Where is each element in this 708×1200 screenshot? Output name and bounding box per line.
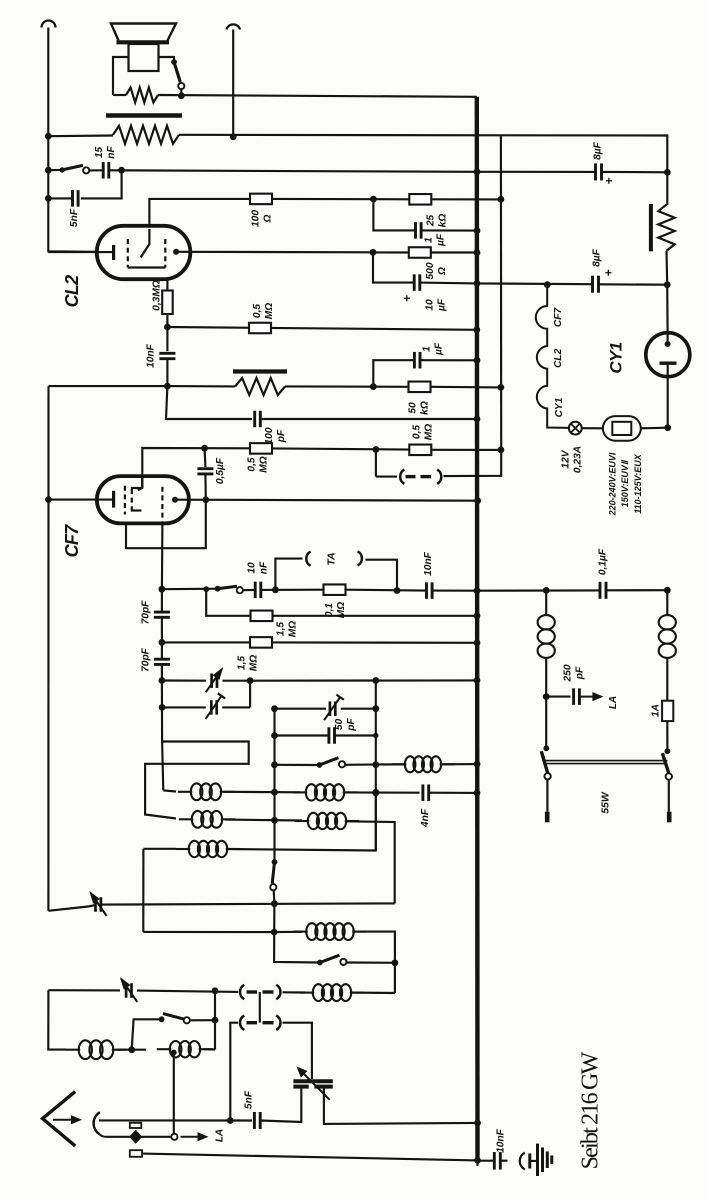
wire 100ohm to 25k [272, 198, 409, 201]
switch S-band2 lever [320, 955, 340, 962]
label 0,1uF [598, 548, 609, 575]
gang link line a [545, 760, 667, 762]
arrester box top [130, 1123, 142, 1128]
arrester diamond [129, 1130, 142, 1144]
node heater chain top [544, 281, 551, 288]
svg-text:100: 100 [251, 210, 262, 227]
wire bus to 10nF earth [478, 1160, 495, 1162]
capacitor C 1uF (screen) [413, 352, 416, 369]
wire secondary row [158, 95, 477, 97]
wire 15nF to bus [109, 170, 477, 172]
wire rowC right [101, 903, 395, 904]
node 0.5uF bottom [202, 496, 209, 503]
earth socket arc [520, 1153, 525, 1170]
wire rail to CY1 [666, 285, 669, 333]
mains prong left [545, 812, 550, 823]
antenna socket arc [94, 1112, 100, 1134]
svg-text:CL2: CL2 [553, 348, 564, 368]
svg-text:LA: LA [215, 1129, 226, 1142]
switch S-mains1 contact [544, 773, 550, 779]
wire x274 column top [273, 709, 275, 862]
node bus bottom row [474, 1157, 481, 1164]
node rail-B cathode [45, 496, 52, 503]
label 0,1MOhm [324, 602, 347, 618]
tube CF7 grid dash 1 [124, 486, 126, 515]
wire 70pF-a link [161, 589, 163, 612]
svg-text:MΩ: MΩ [424, 424, 435, 440]
label Seibt 216 GW [578, 1051, 604, 1169]
wire jack2 left down [230, 1023, 238, 1121]
label heater CF7 [553, 307, 564, 328]
wire 8uF row [477, 171, 595, 173]
wire CF7 anode row [175, 500, 478, 501]
tube CL2 envelope [97, 226, 191, 279]
switch S-TA lever [218, 586, 237, 589]
node col-x501 50k [498, 384, 505, 391]
wire 1.5Ma to bus [273, 615, 478, 617]
wire x376 column [375, 681, 377, 851]
wire 10nF-b to bus [432, 590, 477, 592]
svg-text:kΩ: kΩ [420, 401, 431, 415]
svg-text:CF7: CF7 [553, 307, 564, 328]
node bus row681 [474, 677, 481, 684]
wire 250pF branch [546, 696, 570, 698]
wire 0.5uF branch [204, 448, 207, 467]
svg-text:+: + [602, 177, 616, 184]
tube CL2 grid dash 2 [164, 239, 166, 268]
node coils G-H [128, 1046, 135, 1053]
label 1uF b [422, 342, 445, 356]
wire rowB right [345, 821, 395, 903]
wire branch down to 1uF [373, 199, 415, 230]
switch S-mains2 lever [662, 753, 668, 773]
resistor R 500ohm [409, 247, 431, 258]
label CL2 [62, 275, 82, 307]
svg-text:10nF: 10nF [423, 551, 434, 576]
wire mains2 tail [668, 780, 670, 812]
svg-text:+: + [602, 269, 616, 276]
label 1,5MOhm b [237, 655, 260, 671]
coil L-ant (row765) [392, 763, 407, 765]
dropper core bar [649, 204, 653, 251]
tube CF7 screen bracket dash [131, 489, 133, 510]
wire x274 rowC-rowF [273, 904, 275, 932]
wire primary left [48, 134, 113, 137]
svg-text:0,1µF: 0,1µF [598, 548, 609, 575]
wire 500ohm to bus [431, 251, 477, 253]
wire rowF a [274, 931, 302, 933]
node row386 junction [164, 383, 171, 390]
wire 70pF-b to row681 [161, 665, 163, 681]
wire LA line [106, 1136, 171, 1138]
jack1 dash b [263, 990, 274, 993]
wire branch 1uF-b [373, 360, 414, 386]
svg-text:MΩ: MΩ [288, 621, 299, 637]
tube CY1 envelope [646, 333, 690, 377]
wire 10nF earth to socket [500, 1160, 507, 1162]
node rowG x215 [212, 987, 219, 994]
node g-column row681 [159, 677, 166, 684]
tube CL2 anode bottom bar [128, 266, 166, 268]
wire B+ row y136 [179, 134, 501, 137]
earth plate box [130, 1150, 142, 1157]
wire 8uF row right [602, 171, 668, 174]
node x274 row735 [271, 732, 278, 739]
pilot lamp [569, 422, 582, 435]
label plus 8uF upper [602, 177, 616, 184]
svg-text:CL2: CL2 [62, 275, 82, 307]
node TA1 branch [272, 586, 279, 593]
switch S-osc contact [270, 884, 276, 890]
node x274 rowB [271, 817, 278, 824]
speaker cone mouth bar [117, 40, 170, 44]
svg-text:70pF: 70pF [141, 647, 152, 672]
wire speaker right vertical [232, 30, 234, 138]
wire lamp to selector [582, 427, 603, 429]
wire shunt link [113, 94, 126, 96]
wire rect link [145, 742, 249, 819]
capacitor C 70pF a [154, 611, 170, 614]
voltage selector inner box [612, 422, 631, 435]
switch S-osc lever [272, 862, 274, 884]
svg-text:1A: 1A [651, 704, 662, 717]
resistor R 0.5Mohm a [249, 323, 271, 334]
node TA2 branch [394, 587, 401, 594]
node switch765 pivot [317, 762, 323, 768]
switch S-ant contact [184, 1017, 190, 1023]
gang link line b [545, 763, 667, 765]
wire row419 [166, 386, 252, 419]
wire coilH tap down [173, 1053, 175, 1134]
wire row765 a [275, 764, 320, 766]
switch S-speaker pivot [171, 59, 177, 65]
node bus row330 [473, 326, 480, 333]
label CY1 big [606, 342, 625, 373]
node x376 row765 [372, 761, 379, 768]
node x376 row708 [372, 705, 379, 712]
label 15nF [94, 146, 117, 159]
transformer core bar [106, 113, 182, 118]
node rail row590 [664, 587, 671, 594]
wire rowG drop [48, 990, 66, 1049]
svg-text:µF: µF [436, 233, 447, 247]
wire jack2 right down [283, 1023, 312, 1079]
switch S-TA contact [237, 587, 243, 593]
wire contact to cap [89, 169, 103, 171]
label 10uF [425, 298, 448, 312]
label 70pF a [141, 600, 152, 625]
node bus varco [474, 1120, 481, 1127]
switch S-band1 lever [319, 758, 338, 765]
speaker cone [111, 24, 176, 41]
resistor R 0.1Mohm [324, 584, 346, 595]
svg-text:8µF: 8µF [593, 141, 604, 160]
antenna chevron [43, 1092, 76, 1146]
capacitor C 1uF (CL2 grid) [414, 222, 417, 239]
jack1 arc right [276, 985, 280, 999]
label heater CY1 [554, 397, 565, 417]
svg-text:4nF: 4nF [420, 808, 431, 828]
svg-text:50: 50 [408, 402, 419, 414]
LA arrow [181, 1136, 200, 1138]
switch S-tone lever [62, 165, 83, 170]
wire row386 left [49, 385, 168, 387]
node switch962 pivot [317, 960, 323, 966]
svg-text:0,23A: 0,23A [573, 446, 584, 473]
trimmer CT5 [125, 983, 128, 998]
wire 70pF-a to row642 [161, 617, 163, 642]
wire coilF right [350, 992, 395, 995]
svg-text:0,3MΩ: 0,3MΩ [152, 280, 163, 311]
wire rail-B [47, 386, 49, 911]
wire row735 b [335, 734, 376, 736]
wire row707 [162, 706, 206, 708]
label 5nF bottom [244, 1090, 255, 1109]
node g-column row642 [159, 639, 166, 646]
resistor field coil winding [235, 378, 285, 395]
label 100 Ohm [251, 210, 274, 227]
wire 10nF-a to 0.1M [261, 589, 324, 591]
wire 0.3M to 10nF [166, 314, 168, 351]
tube CF7 grid dash 2 [161, 487, 163, 523]
label CF7 [62, 524, 82, 557]
wire voice coil left [113, 57, 129, 95]
capacitor C 0.1uF [599, 582, 602, 599]
heater chain [536, 285, 569, 428]
svg-text:0,5: 0,5 [412, 425, 423, 439]
resistor OT primary winding [113, 126, 179, 144]
coil L-A1 [178, 791, 193, 793]
wire antenna lower curve [100, 1134, 106, 1136]
label 8uF upper [593, 141, 604, 160]
svg-text:500: 500 [425, 262, 436, 279]
trimmer CT1 [210, 673, 213, 688]
coil choke1 [538, 615, 555, 629]
wire 10nF to row386 [166, 359, 168, 386]
wire choke1 top [545, 590, 547, 616]
svg-text:MΩ: MΩ [249, 655, 260, 671]
coil L-B1 [179, 818, 194, 820]
label TA [326, 552, 338, 565]
tube CL2 grid dash 1 [127, 239, 129, 268]
resistor speaker shunt [126, 88, 158, 103]
wire bus bottom stub [476, 1123, 478, 1166]
wire 15nF row start [48, 169, 62, 171]
wire contact to 10nF-a [243, 589, 255, 591]
capacitor C 10nF TA [254, 582, 257, 599]
label 1,5MOhm a [276, 621, 299, 637]
wire row590 right b [606, 589, 667, 591]
resistor R 1.5Mohm a [251, 611, 273, 622]
node switch590 pivot [215, 586, 221, 592]
wire 100pF to bus [260, 418, 477, 420]
trimmer CT4 [94, 897, 97, 912]
wire CF7 U-link [126, 500, 206, 548]
wire jack1 to coilF [283, 991, 306, 993]
capacitor C 100pF [253, 411, 256, 428]
wire rowF right [358, 932, 395, 993]
node bus CF7 anode [474, 497, 481, 504]
svg-text:kΩ: kΩ [438, 214, 449, 228]
jack hook TA1 [306, 552, 310, 566]
svg-text:pF: pF [575, 666, 586, 680]
node x376 rowA [372, 789, 379, 796]
resistor R 0.5Mohm b [250, 443, 272, 454]
wire CL2 grid row [176, 251, 373, 254]
wire row681 a [162, 679, 206, 681]
svg-text:10: 10 [247, 562, 258, 574]
wire 1uF to bus [421, 229, 477, 231]
coil L-F [300, 992, 315, 994]
svg-text:8µF: 8µF [591, 248, 602, 267]
wire rowG b [137, 991, 238, 992]
node x274 row765 [271, 761, 278, 768]
node bus rowA [474, 790, 481, 797]
jack dash b [421, 475, 432, 478]
node row681 x250 [247, 677, 254, 684]
resistor R 50kohm [409, 382, 431, 393]
node 15nF junction [118, 167, 125, 174]
capacitor C 4nF [421, 784, 424, 801]
jack dash a [406, 475, 416, 478]
resistor R 1.5Mohm b [250, 637, 272, 648]
capacitor C 5nF bottom [253, 1112, 256, 1129]
svg-text:10nF: 10nF [146, 343, 157, 368]
switch S-ant lever [163, 1014, 184, 1020]
wire row765 b [345, 763, 404, 766]
capacitor C 70pF b [154, 658, 170, 661]
wire CF7 cathode lead [49, 499, 113, 501]
coil L-E [293, 931, 308, 933]
jack1 arc left [240, 985, 244, 999]
wire rail seg2 [665, 251, 668, 285]
label 0,5MOhm b [247, 456, 270, 472]
svg-text:pF: pF [346, 718, 357, 732]
wire row590 right a [477, 589, 600, 591]
node bus 500ohm [474, 249, 481, 256]
wire rowG left [48, 989, 120, 991]
tube CY1 anode lead [667, 333, 669, 341]
wire switch to node [180, 89, 182, 96]
svg-text:Ω: Ω [437, 267, 448, 276]
wire TA-parallel right link [444, 450, 502, 476]
wire coilG-H link [117, 1049, 146, 1051]
wire 0.5Mb to 0.5Mc [272, 448, 409, 449]
svg-text:TA: TA [326, 552, 338, 565]
svg-text:220-240V:EUVI: 220-240V:EUVI [608, 452, 618, 516]
node 0.5uF top [201, 445, 208, 452]
node speaker line [178, 92, 185, 99]
node rail 8uF upper [664, 169, 671, 176]
capacitor C 5nF top [71, 190, 74, 207]
svg-text:LA: LA [608, 696, 619, 709]
capacitor C 10nF earth [493, 1152, 496, 1170]
svg-text:70pF: 70pF [141, 600, 152, 625]
jack arc left (grid jack) [400, 470, 404, 484]
wire antenna upper [99, 1119, 252, 1121]
svg-text:50: 50 [334, 719, 345, 731]
wire CL2 cathode lead [48, 251, 112, 253]
node bus 100pF [474, 416, 481, 423]
wire TA-parallel drop left [375, 450, 377, 477]
node bus 1.5Ma [474, 612, 481, 619]
label 1uF a [424, 233, 447, 247]
svg-text:0,5µF: 0,5µF [215, 457, 226, 484]
node rowC x274 [271, 900, 278, 907]
label 0,5uF [215, 457, 226, 484]
coil L-B2 [295, 820, 310, 822]
label voltage selector [608, 452, 643, 516]
svg-text:0,5: 0,5 [252, 304, 263, 318]
switch S-mains1 lever [541, 751, 547, 773]
coil choke2 [659, 615, 676, 629]
switch S-speaker contact [178, 83, 184, 89]
node rowF x274 [271, 929, 278, 936]
label 10nF b [423, 551, 434, 576]
wire rail seg1 [666, 172, 668, 205]
wire B+ corner to rail [501, 135, 667, 172]
jack arc right (grid jack) [437, 470, 441, 484]
coil L-C1 [176, 848, 191, 850]
wire coilA right [343, 791, 420, 793]
tube CF7 screen bracket bottom [131, 509, 142, 511]
tube CF7 cathode bar [112, 491, 115, 508]
label 25 kOhm [426, 214, 449, 228]
svg-text:nF: nF [106, 146, 117, 159]
wire row735 a [275, 734, 329, 736]
label 0,3MOhm [152, 280, 163, 311]
node 500ohm row junction [370, 249, 377, 256]
wire rowC left [48, 905, 95, 911]
wire coilH right [203, 1048, 215, 1051]
label 10nF grid [146, 343, 157, 368]
wire col-x501 [500, 135, 502, 450]
node 5nF row x230 [227, 1117, 234, 1124]
wire rowD right [226, 793, 376, 851]
wire varco right stator [324, 1087, 478, 1124]
node switch1020 pivot [159, 1016, 165, 1022]
label 250pF [563, 664, 586, 682]
tube CF7 anode dot [172, 497, 178, 503]
wire TA-parallel left link [376, 476, 397, 478]
wire CL2 bottom to 0.3M [166, 279, 168, 290]
switch S-mains2 contact [666, 773, 672, 779]
LA terminal circle [171, 1134, 177, 1140]
switch S-osc pivot [272, 859, 278, 865]
wire rowB mid [225, 819, 302, 822]
node mains switch1 pivot [543, 745, 549, 751]
svg-text:1,5: 1,5 [276, 622, 287, 636]
wire g-col to coilA [163, 790, 176, 791]
wire bottom row [142, 1154, 477, 1161]
capacitor C 10nF b [425, 582, 428, 599]
wire to 500ohm [373, 251, 409, 253]
wire branch x206 [206, 589, 251, 616]
node bus 10uF row [474, 280, 481, 287]
node choke1 top [543, 587, 550, 594]
node rail selector [664, 424, 671, 431]
resistor R 25kohm [409, 194, 431, 205]
wire coil to bus row765 [441, 763, 477, 765]
wire row386 right [285, 385, 408, 388]
speaker terminal hook left [42, 21, 56, 28]
wire g-column 707-741 [161, 681, 163, 742]
label LA bottom [215, 1129, 226, 1142]
svg-text:55W: 55W [600, 791, 612, 814]
tube CF7 envelope [97, 476, 189, 523]
node x215 row1020 [212, 1017, 219, 1024]
wire row448 [142, 448, 250, 488]
